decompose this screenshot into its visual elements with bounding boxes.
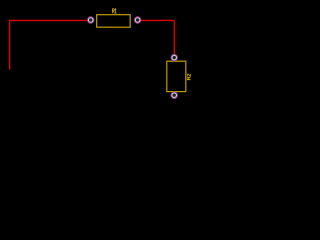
pad: R2 pin 2 (bottom) [171,92,178,99]
wire: net2 vertical segment down to R2 top pad [173,20,175,57]
wire: net2 horizontal segment from R1 pad 2 going right [138,19,175,21]
resistor R1 body outline [97,15,131,28]
resistor R1 reference label "R1" [112,9,116,13]
pad: R1 pin 2 (right) [134,17,141,24]
component R2 reference label (rotated 90deg CCW) [187,74,190,80]
resistor R2 body outline (vertical component on right) [167,61,186,91]
wire: net1 vertical segment going down at left edge, dangling end [9,20,11,70]
pad: R2 pin 1 (top) [171,54,178,61]
wire: net1 horizontal segment from R1 pad 1 going left [10,19,91,21]
pad: R1 pin 1 (left) [87,17,94,24]
